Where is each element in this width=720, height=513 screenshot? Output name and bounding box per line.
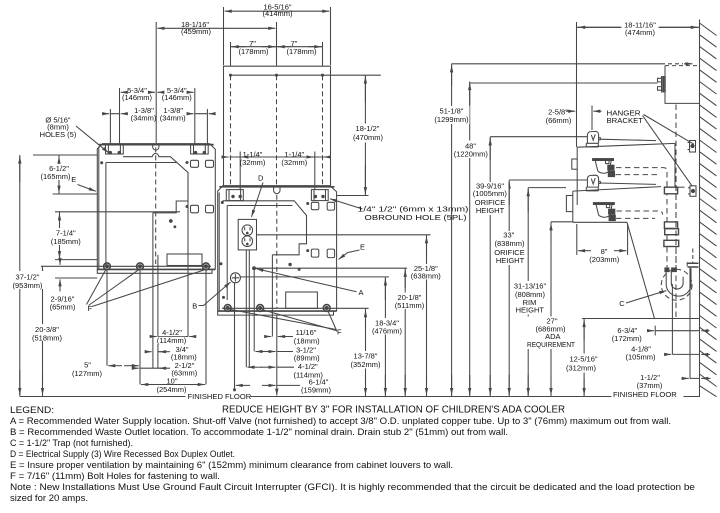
dimension 18-1/16in extension lines: [156, 22, 276, 143]
dimension 5in line: [108, 365, 139, 367]
dimension 12-5/16in line: [583, 319, 585, 397]
left plate obround holes lower: [191, 205, 214, 213]
svg-text:18-1/2": 18-1/2": [356, 124, 380, 133]
leader E left: [78, 185, 96, 192]
svg-text:E: E: [360, 243, 365, 252]
dimension 3/4in line: [146, 351, 171, 353]
dimension 10in line: [141, 384, 205, 386]
left plate mounting tab left: [106, 144, 124, 154]
svg-text:(146mm): (146mm): [162, 93, 193, 102]
dimension 16-5/16in line: [225, 10, 330, 12]
leaders hanger bracket: [643, 115, 695, 187]
left plate inner contour second line: [106, 162, 177, 164]
dimension 18-3/4in line: [384, 277, 386, 397]
svg-text:FINISHED FLOOR: FINISHED FLOOR: [188, 392, 252, 401]
svg-text:(146mm): (146mm): [122, 93, 153, 102]
upper unit front and apron: [572, 147, 577, 205]
dashed centerline end dots: [230, 74, 324, 76]
upper unit back panel: [674, 143, 676, 188]
leader from D label to outlet: [252, 183, 264, 217]
trap bottom extension line: [671, 284, 673, 354]
svg-text:sized for 20 amps.: sized for 20 amps.: [10, 493, 88, 503]
leader B label: [199, 282, 231, 306]
svg-text:D: D: [258, 174, 264, 183]
upper cabinet inner top line with 18-1/2 extension: [230, 74, 381, 76]
dimension 6-1/2in line: [58, 155, 60, 194]
svg-text:(18mm): (18mm): [171, 352, 197, 361]
extension line bolt row left: [41, 265, 211, 267]
center plate centerline dashed: [276, 195, 278, 308]
center mounting plate outline: [218, 186, 337, 311]
svg-text:31-13/16": 31-13/16": [514, 281, 547, 290]
dimension 1-1/4in lines: [222, 156, 331, 158]
svg-text:LEGEND:: LEGEND:: [10, 405, 54, 415]
electrical outlet side symbol: [658, 76, 666, 93]
svg-text:OBROUND HOLE (5PL): OBROUND HOLE (5PL): [365, 215, 467, 222]
callout letters: [71, 174, 625, 337]
leader E right: [339, 250, 360, 259]
svg-text:A: A: [358, 288, 363, 297]
left plate inner left vertical: [105, 163, 107, 266]
node A water supply location: [253, 267, 256, 270]
lower unit deck back line: [600, 183, 656, 184]
pipe continues to trap: [667, 247, 676, 268]
svg-text:B: B: [192, 301, 197, 310]
svg-text:(37mm): (37mm): [637, 381, 663, 390]
svg-text:Note : New Installations Must: Note : New Installations Must Use Ground…: [10, 482, 695, 492]
dimension 2-1/2in line: [132, 367, 170, 369]
svg-text:B = Recommended Waste Outlet l: B = Recommended Waste Outlet location. T…: [10, 427, 508, 437]
dimension 20-1/8in line: [404, 268, 406, 396]
dimension 18-11/16in extension: [576, 22, 578, 147]
svg-text:(352mm): (352mm): [350, 360, 381, 369]
leader C to trap: [626, 291, 666, 303]
lower unit bubbler: [586, 175, 600, 191]
dimension 4-1/2in left line: [151, 336, 197, 338]
dimension 20-3/8in line: [42, 266, 44, 396]
lower unit strainer: [593, 203, 615, 221]
dimension 7in lines: [231, 46, 323, 48]
dimension 6-1/4in line: [236, 384, 300, 386]
svg-text:(178mm): (178mm): [286, 47, 317, 56]
svg-text:(414mm): (414mm): [262, 9, 293, 18]
svg-text:(312mm): (312mm): [566, 364, 597, 373]
svg-text:C: C: [619, 299, 625, 308]
recessed electrical box: [665, 64, 700, 104]
svg-text:33": 33": [503, 230, 514, 239]
svg-text:(511mm): (511mm): [395, 301, 425, 310]
svg-text:HEIGHT: HEIGHT: [516, 306, 545, 315]
svg-text:(32mm): (32mm): [240, 158, 266, 167]
upper cabinet dashed centerlines: [231, 75, 323, 185]
dimension 33in line and extension: [509, 180, 587, 397]
finished floor line: [20, 396, 700, 398]
svg-text:(34mm): (34mm): [160, 114, 186, 123]
left plate anchor bolt 1: [104, 263, 111, 270]
dimension 7-1/4in line: [59, 212, 61, 260]
leader A label: [256, 269, 356, 292]
center plate top notch: [274, 186, 280, 194]
extension line plate top to left: [33, 154, 97, 156]
legend block: [10, 405, 695, 503]
centerline extension to floor: [276, 315, 278, 396]
dimension 1-3/8in extension lines: [110, 109, 207, 143]
svg-text:(474mm): (474mm): [625, 28, 656, 37]
center plate inner left vertical: [226, 206, 228, 301]
svg-text:(254mm): (254mm): [156, 385, 187, 394]
svg-text:REQUIREMENT: REQUIREMENT: [527, 340, 575, 349]
dimension 2-9/16in arrows: [59, 259, 61, 292]
svg-text:FINISHED FLOOR: FINISHED FLOOR: [613, 390, 677, 399]
svg-text:F = 7/16" (11mm) Bolt Holes fo: F = 7/16" (11mm) Bolt Holes for fastenin…: [10, 471, 220, 481]
svg-text:(66mm): (66mm): [546, 116, 572, 125]
outlet extension lines down: [246, 250, 249, 367]
svg-text:(172mm): (172mm): [612, 334, 643, 343]
svg-text:(953mm): (953mm): [12, 281, 43, 290]
upper unit deck back line: [600, 139, 656, 140]
svg-text:(638mm): (638mm): [411, 271, 442, 280]
dimension 18-1/2in bottom extension: [337, 195, 369, 197]
dimension 1-3/8in lines: [102, 113, 216, 115]
dimension 7in extension lines: [231, 42, 323, 66]
svg-text:(1005mm): (1005mm): [473, 189, 508, 198]
dimension 51-1/8in line and extension: [452, 64, 665, 397]
svg-text:E: E: [71, 175, 76, 184]
svg-text:F: F: [88, 304, 93, 313]
lower unit cabinet bottom: [573, 221, 627, 223]
extension line B down to 6-1/4 dim and floor: [234, 283, 236, 396]
center plate anchor bolt 3: [323, 305, 330, 312]
P-trap body dashed: [661, 269, 692, 300]
extension line A down to 3-1/2 dim: [253, 270, 255, 352]
wall line: [699, 20, 701, 398]
left plate rivet dots: [101, 162, 188, 228]
hanger bracket label: [607, 108, 644, 125]
dimension 37-1/2in line: [19, 155, 21, 397]
center plate obround holes lower: [311, 249, 334, 258]
dimension 8in line: [578, 250, 626, 252]
svg-text:(476mm): (476mm): [372, 326, 403, 335]
dimension 25-1/8in line: [426, 235, 428, 397]
svg-text:(1299mm): (1299mm): [434, 115, 469, 124]
node B waste outlet circle: [230, 273, 240, 283]
svg-text:HEIGHT: HEIGHT: [476, 206, 505, 215]
wall hatching: [700, 23, 717, 397]
svg-text:(518mm): (518mm): [32, 333, 63, 342]
center plate mounting tab right: [311, 190, 328, 201]
left plate inner contour top: [123, 154, 188, 213]
dimension 2-5/8in arrows: [566, 110, 602, 112]
center plate mounting tab left: [226, 190, 243, 201]
svg-text:E = Insure proper ventilation: E = Insure proper ventilation by maintai…: [10, 460, 453, 470]
svg-text:(185mm): (185mm): [51, 237, 82, 246]
lower unit front and apron: [566, 191, 572, 222]
waste pipe couplings: [664, 187, 679, 246]
dimension 4-1/2in right line: [248, 366, 295, 368]
upper unit strainer: [593, 159, 615, 177]
dimension 8in extensions: [577, 224, 628, 255]
left mounting plate outline: [97, 144, 215, 270]
center plate profile extension to 11/16 dim: [271, 255, 273, 337]
leader obround hole note: [330, 199, 363, 209]
center plate rivet dots: [220, 202, 309, 299]
center plate louver opening: [286, 292, 318, 308]
upper unit basin top: [577, 143, 675, 147]
upper cabinet outline front view: [224, 66, 331, 186]
duplex outlet D: [238, 219, 256, 250]
waste stub at wall: [687, 249, 698, 269]
svg-text:(34mm): (34mm): [131, 114, 157, 123]
left plate louver opening: [167, 254, 202, 266]
dimension 7-1/4in extensions: [55, 212, 180, 260]
svg-text:(838mm): (838mm): [494, 239, 525, 248]
P-trap U-bend solid: [666, 268, 691, 296]
svg-text:A = Recommended Water Supply l: A = Recommended Water Supply location. S…: [10, 416, 671, 426]
leaders F left to bolts: [87, 270, 205, 307]
extension line bolt row to 13-7/8 dim: [222, 307, 369, 309]
left plate top notch: [153, 144, 159, 150]
center plate inner contour: [223, 201, 307, 255]
center plate anchor bolt 2: [257, 305, 264, 312]
dimension 16-5/16in extension lines: [224, 7, 331, 65]
svg-text:(1220mm): (1220mm): [454, 149, 489, 158]
tailpiece extension line: [654, 326, 656, 336]
left plate mounting tab right: [191, 144, 209, 154]
center plate obround holes upper: [311, 202, 334, 210]
dimension 5-3/4in extension lines: [120, 88, 195, 143]
left plate center line dashed: [155, 148, 157, 265]
dimension texts: [12, 2, 662, 394]
svg-text:1/4" 1/2" (6mm x 13mm): 1/4" 1/2" (6mm x 13mm): [358, 207, 469, 214]
svg-text:(105mm): (105mm): [625, 353, 656, 362]
dimension 5-3/4in lines: [121, 91, 194, 93]
dimension 27in line and extension: [551, 222, 573, 397]
waste stub centerline extension: [689, 268, 691, 379]
dimension 11/16in line: [265, 336, 294, 338]
svg-text:(65mm): (65mm): [50, 302, 76, 311]
svg-text:(459mm): (459mm): [181, 27, 212, 36]
leader for 5/16in holes note: [76, 126, 109, 153]
svg-text:(470mm): (470mm): [353, 133, 384, 142]
upper unit bubbler: [586, 131, 600, 147]
dimension 18-1/2in line: [364, 75, 366, 195]
dimension 13-7/8in line: [365, 309, 367, 397]
svg-text:(178mm): (178mm): [238, 47, 269, 56]
leaders F right to bolts: [230, 309, 338, 331]
cabinet back dashed line: [675, 105, 677, 319]
dimension 1-1/2in line: [682, 377, 711, 379]
waste pipe dashed verticals: [667, 172, 676, 247]
svg-text:(203mm): (203mm): [589, 255, 620, 264]
svg-text:(18mm): (18mm): [294, 336, 320, 345]
center plate anchor bolt 1: [224, 305, 231, 312]
svg-text:REDUCE HEIGHT BY 3" FOR INSTAL: REDUCE HEIGHT BY 3" FOR INSTALLATION OF …: [222, 405, 565, 416]
extension line A to 20-1/8 dim: [254, 267, 407, 269]
svg-text:BRACKET: BRACKET: [607, 116, 644, 125]
svg-text:(89mm): (89mm): [294, 353, 320, 362]
svg-text:12-5/16": 12-5/16": [569, 354, 597, 363]
left plate profile line C: [187, 173, 189, 337]
svg-text:(127mm): (127mm): [72, 369, 103, 378]
trap inlet nuts: [665, 268, 676, 272]
svg-text:D = Electrical Supply (3) Wire: D = Electrical Supply (3) Wire Recessed …: [10, 449, 235, 459]
svg-text:(114mm): (114mm): [157, 336, 187, 345]
left plate bottom flange: [97, 269, 215, 273]
lower unit basin top: [573, 187, 685, 192]
projection line cabinet corner to trap extension: [627, 222, 655, 318]
svg-text:C = 1-1/2" Trap (not furnished: C = 1-1/2" Trap (not furnished).: [10, 438, 133, 448]
dimension 48in line and extension: [470, 82, 658, 397]
bolt extension lines down left plate: [107, 270, 206, 385]
extension line 6-1/2 bottom: [53, 193, 98, 195]
left plate anchor bolt 3: [203, 263, 210, 270]
left plate anchor bolt 2: [137, 263, 144, 270]
white backings for texts crossing lines: [10, 21, 684, 401]
dimension 39-9/16in line and extension: [490, 137, 587, 397]
left plate profile line A: [152, 213, 154, 368]
dimension 4-1/8in line: [664, 353, 710, 355]
dimension 3-1/2in line: [255, 351, 293, 353]
extension line B to 18-3/4 dim: [240, 276, 389, 278]
svg-text:(63mm): (63mm): [171, 369, 197, 378]
finished floor labels: [188, 390, 678, 401]
svg-text:(32mm): (32mm): [281, 158, 307, 167]
hanger bracket lower: [688, 186, 696, 197]
dimension 18-11/16in line: [577, 26, 700, 28]
svg-text:(165mm): (165mm): [40, 172, 71, 181]
left plate obround holes upper: [191, 160, 214, 167]
lower unit drain route dashed: [616, 211, 663, 218]
center plate bottom flange: [218, 311, 337, 315]
extension line plate bottom left: [55, 277, 97, 279]
svg-text:F: F: [337, 328, 342, 337]
dimension 18-1/16in line: [157, 27, 275, 29]
left plate profile line B: [157, 255, 159, 368]
hanger bracket upper: [688, 141, 696, 153]
dimension 1-1/4in extension lines: [240, 152, 315, 190]
obround hole note: [358, 207, 469, 223]
extension line outlet to 25-1/8 dim: [257, 234, 431, 236]
dimension 2-5/8in extension: [591, 106, 593, 131]
center plate inner second line: [227, 205, 292, 207]
trap area horizontal extension: [582, 318, 700, 320]
upper unit drain route dashed: [616, 168, 668, 175]
dimension 31-13/16in line and extension: [528, 188, 566, 397]
svg-text:(159mm): (159mm): [301, 386, 332, 395]
dimension 6-3/4in line: [647, 330, 710, 332]
svg-text:HOLES (5): HOLES (5): [40, 130, 77, 139]
svg-text:HEIGHT: HEIGHT: [496, 256, 525, 265]
